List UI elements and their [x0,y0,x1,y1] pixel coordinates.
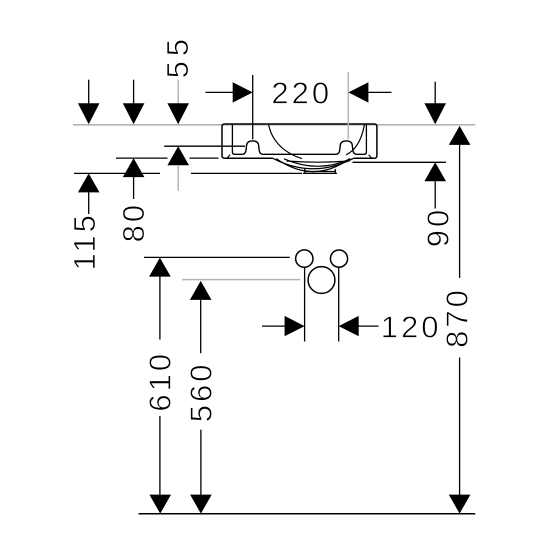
reference line 90 (bowl underside right) [353,161,447,163]
left mounting hook [243,141,263,154]
dimension 870 top arrow [449,126,471,145]
floor line (bottom) [139,513,476,515]
extension line 120 left [304,268,306,342]
reference line 560 (drain level, gray) [182,279,300,281]
basin right foot step [369,155,372,159]
extension line 220 left [252,75,254,139]
dimension 80 top arrow [133,80,135,104]
svg-text:115: 115 [67,212,102,270]
basin left foot step [227,155,230,159]
svg-text:80: 80 [116,202,151,242]
bowl left silhouette [269,124,302,158]
faucet hole left circle [296,250,313,267]
basin inner wall left [232,124,242,154]
dimension 870 bottom arrow [449,495,471,514]
dimension 80 bottom arrow [123,158,145,177]
reference line 80 (basin bottom level) [116,157,168,159]
dimension 55 bottom arrow [167,146,189,165]
dimension 610 lower line [159,416,161,496]
drain circle [308,267,335,294]
reference line 610 (faucet holes level) [144,256,290,258]
svg-text:610: 610 [143,351,178,412]
dimension 870 lower line [459,358,461,496]
dimension 120 left arrow [262,325,285,327]
svg-text:220: 220 [271,76,332,111]
extension line 220 right (gray) [347,72,349,139]
right mounting hook [337,141,357,154]
svg-text:560: 560 [183,362,218,423]
dimension 115 bottom arrow [78,173,100,192]
basin inner wall right [356,124,366,154]
svg-text:55: 55 [160,34,195,78]
dimension 90 bottom arrow [424,162,446,181]
dimension 220 left arrow [206,91,234,93]
bowl underside ring 1 [273,158,354,168]
reference line 115 (drain level) [74,172,160,174]
reference line 55 (hook level) [164,145,245,147]
dimension 560 bottom arrow [190,495,212,514]
dimension 90 top arrow [434,82,436,106]
bowl underside ring 2 [276,159,349,172]
dimension 55 top arrow [177,80,179,104]
bowl underside ring 3 [284,159,351,167]
dimension 560 lower line [200,430,202,496]
basin outer shell [222,124,377,158]
dimension 610 top arrow [149,258,171,277]
dimension 115 top arrow [88,80,90,104]
basin inner bottom line [262,153,336,155]
wall reference line (gray, top) [73,124,475,126]
svg-text:120: 120 [381,309,442,344]
faucet hole right circle [330,250,347,267]
drain fitting [303,169,337,173]
svg-text:90: 90 [421,207,456,247]
svg-text:870: 870 [439,287,474,348]
dimension 220 right arrow [368,91,392,93]
dimension 560 top arrow [190,281,212,300]
dimension 120 right arrow [359,325,379,327]
bowl right silhouette [346,124,364,154]
bowl waterline chord [287,161,350,162]
dimension 610 bottom arrow [149,495,171,514]
extension line 120 right [338,267,340,341]
